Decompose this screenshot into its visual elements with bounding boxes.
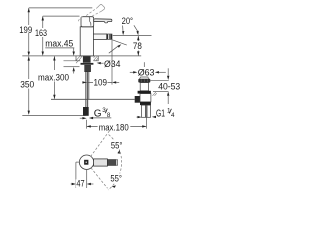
wire extension line top (199 to raised lever top)	[29, 7, 93, 9]
svg-text:Ø63: Ø63	[138, 67, 155, 78]
svg-text:G1: G1	[156, 109, 165, 120]
swivel dashed line up	[91, 130, 111, 157]
arc arrowheads	[117, 150, 120, 154]
washer	[81, 63, 94, 65]
svg-text:109: 109	[94, 77, 108, 87]
faucet body	[80, 27, 93, 56]
drain threaded lower tube	[141, 105, 150, 117]
svg-text:47: 47	[76, 179, 84, 190]
svg-text:max.300: max.300	[38, 72, 69, 82]
wire bowl surface line at drain	[153, 91, 169, 93]
wire 350 bottom reference line	[22, 114, 85, 116]
deck hatched left	[76, 56, 82, 63]
20deg leader arrows	[122, 26, 124, 32]
dimension 40-53	[150, 79, 169, 81]
label 55 top	[110, 141, 125, 150]
dimension max.180	[87, 125, 147, 127]
dimension max.300	[53, 56, 55, 99]
G3/8 leader	[91, 117, 111, 119]
label D34	[103, 59, 121, 68]
D34 leader arrow	[100, 62, 103, 64]
pull rod vertical	[88, 72, 90, 100]
faucet cap	[81, 17, 94, 27]
knob center tick	[143, 62, 145, 67]
47 tick at circle	[76, 161, 80, 163]
lever stub center	[84, 160, 88, 165]
knob knurl band	[138, 79, 150, 83]
label 350	[19, 79, 36, 89]
dimension 350 vertical line below deck	[28, 56, 30, 113]
drain axis extension	[145, 117, 147, 128]
wire max45 bottom ref	[64, 66, 80, 68]
lever bar top view	[94, 159, 108, 166]
deck hatched right	[94, 56, 99, 61]
hatch right of drain	[153, 92, 157, 96]
drain flange (dark)	[138, 91, 151, 94]
dimension 78	[137, 36, 139, 56]
D63 arrows	[130, 71, 134, 73]
drain knob (pop-up waste)	[140, 77, 149, 79]
raised lever dashed outline	[78, 5, 105, 22]
dimension 199 vertical line	[28, 8, 30, 54]
supply pipes	[85, 72, 87, 108]
G3/8 connection nut	[83, 107, 89, 116]
svg-text:55°: 55°	[110, 173, 122, 183]
drain stem	[140, 83, 148, 91]
wire jet 20deg diagonal	[112, 40, 127, 45]
svg-text:163: 163	[35, 28, 47, 38]
svg-text:20°: 20°	[122, 16, 134, 26]
wire pop-up rod horizontal	[51, 98, 135, 100]
47 extension lines	[75, 162, 77, 188]
dimension 47	[71, 183, 72, 185]
spout	[93, 34, 106, 39]
label max.300	[38, 72, 71, 82]
body circle	[79, 155, 93, 169]
label 47	[76, 179, 86, 187]
drain upper tube	[140, 94, 151, 102]
wire deck surface line	[22, 55, 141, 57]
wire spout horizontal reference	[113, 35, 152, 37]
shank below deck	[83, 56, 91, 63]
wire extension line (163 to body top)	[43, 15, 80, 17]
svg-text:max.45: max.45	[45, 39, 73, 49]
lever handle	[94, 19, 112, 23]
rod clamp	[135, 96, 140, 103]
svg-text:4: 4	[171, 112, 175, 119]
swivel arc dashed	[108, 135, 122, 190]
lever front edge curve	[89, 17, 91, 25]
drain dark band	[140, 102, 151, 105]
G1 1/4 leader	[154, 116, 157, 118]
svg-text:Ø34: Ø34	[104, 59, 121, 70]
aerator (striped tip)	[106, 34, 112, 39]
swivel dashed line down	[91, 168, 108, 189]
jet leader arrow	[109, 46, 119, 54]
dimension 163 vertical line	[42, 16, 44, 54]
svg-text:55°: 55°	[111, 140, 123, 150]
wire aerator projection extension line	[111, 40, 113, 85]
label 55 bottom	[109, 174, 124, 183]
svg-text:40-53: 40-53	[158, 81, 180, 92]
svg-text:78: 78	[133, 41, 142, 52]
svg-text:199: 199	[19, 25, 32, 35]
mounting nut	[85, 65, 91, 72]
svg-text:350: 350	[20, 80, 34, 90]
svg-text:max.180: max.180	[99, 122, 129, 132]
dimension 109	[87, 81, 112, 83]
